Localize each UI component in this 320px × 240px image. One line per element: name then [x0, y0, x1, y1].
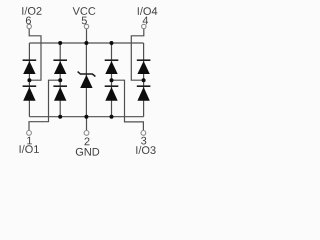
zener diode Z1 (center) — [78, 72, 96, 88]
pin number 2 — [85, 138, 90, 146]
wire pin 5 to VCC rail — [86, 29, 88, 43]
pin number 3 — [141, 137, 146, 145]
junction dot column 3 / VCC rail — [110, 41, 114, 45]
pin number 5 — [82, 17, 87, 25]
diode D4 lower (column 2) — [53, 86, 67, 101]
pin 3 terminal circle — [141, 131, 146, 136]
wire zener column vertical — [85, 43, 87, 117]
junction dot zener / GND rail — [84, 115, 88, 119]
wire column 1 vertical — [28, 43, 30, 117]
wire VCC top rail — [29, 42, 143, 44]
diode D3 upper (column 2) — [53, 60, 67, 74]
diode D6 lower (column 3) — [105, 86, 119, 101]
label I/O1 — [20, 145, 39, 153]
junction dot column 2 / VCC rail — [58, 41, 62, 45]
wire pin 6 to node A — [29, 29, 41, 80]
pin number 4 — [143, 17, 149, 25]
pin 2 terminal circle — [84, 131, 89, 136]
pin 4 terminal circle — [142, 24, 146, 28]
label I/O2 — [22, 7, 41, 15]
wire GND bottom rail — [29, 116, 143, 118]
wire pin 1 to node B — [29, 80, 60, 130]
wire column 2 vertical — [59, 43, 61, 117]
diode D7 upper (column 4) — [137, 60, 151, 74]
pin 5 terminal circle — [84, 24, 88, 28]
wire pin 4 to node D — [131, 29, 144, 80]
diode D1 upper (column 1) — [23, 60, 37, 74]
label I/O4 — [138, 7, 158, 15]
wire column 3 vertical — [111, 43, 113, 117]
node A junction dot (column 1 midpoint) — [27, 78, 31, 82]
pin 1 terminal circle — [27, 131, 32, 136]
diode D2 lower (column 1) — [23, 86, 37, 101]
label VCC — [73, 7, 96, 15]
diode D8 lower (column 4) — [137, 86, 151, 101]
junction dot zener / VCC rail — [84, 41, 88, 45]
node C junction dot (column 3 midpoint) — [110, 78, 114, 82]
pin number 6 — [26, 17, 31, 25]
pin number 1 — [27, 137, 32, 145]
label I/O3 — [136, 146, 155, 154]
junction dot column 3 / GND rail — [110, 115, 114, 119]
junction dot column 2 / GND rail — [58, 115, 62, 119]
diode D5 upper (column 3) — [105, 60, 119, 74]
wire pin 2 to GND rail — [86, 117, 88, 131]
node B junction dot (column 2 midpoint) — [58, 78, 62, 82]
wire column 4 vertical — [143, 43, 145, 117]
node D junction dot (column 4 midpoint) — [142, 78, 146, 82]
pin 6 terminal circle — [27, 24, 31, 28]
wire pin 3 to node C — [112, 80, 144, 130]
label GND — [76, 148, 99, 156]
